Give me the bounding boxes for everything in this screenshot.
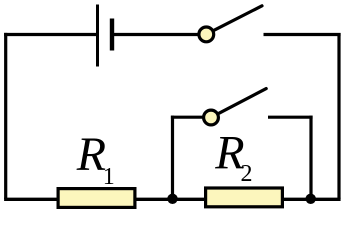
switch S2 pivot circle [204, 110, 219, 125]
svg-text:R: R [76, 128, 106, 181]
wire: left vertical [4, 33, 7, 199]
wire: battery to switch S1 [112, 33, 199, 36]
resistor R2 [206, 188, 283, 207]
switch S1 lever [214, 6, 263, 31]
svg-text:1: 1 [103, 164, 115, 190]
junction node A (left) [167, 194, 177, 204]
wire: branch-2 right horizontal [268, 116, 313, 119]
wire: branch-2 right vertical [309, 116, 312, 199]
switch S1 pivot circle [199, 27, 214, 42]
resistor R1 [58, 189, 135, 208]
battery B1 long plate [96, 5, 99, 67]
wire: top-left horizontal to battery [4, 33, 97, 36]
wire: branch-2 left vertical [171, 116, 174, 199]
battery B1 short plate [110, 19, 114, 51]
wire: top-right horizontal [264, 33, 341, 36]
wire: bottom horizontal [4, 198, 341, 201]
wire: branch-2 left horizontal to switch S2 [171, 116, 204, 119]
junction node B (right) [306, 194, 316, 204]
switch S2 lever [218, 89, 266, 114]
svg-text:2: 2 [241, 161, 253, 187]
wire: right vertical [337, 33, 340, 199]
